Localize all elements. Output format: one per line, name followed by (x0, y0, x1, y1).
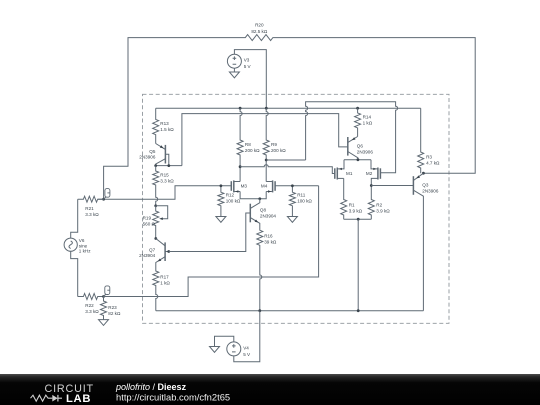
svg-text:R21: R21 (85, 206, 94, 211)
wire V3 plus to +rail (234, 50, 266, 109)
transistor Q6 2N3906 (347, 137, 349, 156)
resistor R2 (368, 186, 374, 220)
ground for R11 (287, 217, 297, 223)
svg-text:R14: R14 (363, 115, 372, 120)
resistor R12 (218, 186, 224, 217)
junction R3 / Q3 emitter / feedback (422, 172, 425, 175)
svg-text:R17: R17 (160, 274, 169, 279)
dashed sub-circuit boundary box (143, 94, 450, 323)
svg-text:560 Ω: 560 Ω (143, 222, 156, 227)
svg-text:pollofrito / Dieesz: pollofrito / Dieesz (115, 382, 187, 392)
svg-text:R15: R15 (160, 172, 169, 177)
wire bias line to Q6 base (182, 114, 348, 166)
wire V6 top lead (71, 199, 78, 238)
ground for R23 (99, 320, 109, 326)
junction +5V rail / V3 / R9 (265, 107, 268, 110)
svg-text:39 kΩ: 39 kΩ (264, 239, 277, 244)
svg-text:3.3 kΩ: 3.3 kΩ (85, 212, 99, 217)
wire node B to M4 gate feedback (104, 186, 319, 297)
svg-text:R19: R19 (143, 216, 152, 221)
wire node A to M3 gate riser (98, 186, 232, 199)
mosfet M4 (274, 181, 276, 191)
svg-text:V3: V3 (244, 58, 250, 63)
svg-text:2N3906: 2N3906 (139, 155, 156, 160)
svg-text:R23: R23 (108, 305, 117, 310)
probe flag node A (104, 197, 107, 200)
svg-text:100 kΩ: 100 kΩ (226, 199, 241, 204)
junction Q7 base (167, 250, 170, 253)
svg-text:R9: R9 (271, 142, 277, 147)
svg-text:R2: R2 (376, 203, 382, 208)
wire M4 drain to top link (266, 159, 305, 161)
junction M2 drain / Q3 base (370, 184, 373, 187)
svg-text:1.5 kΩ: 1.5 kΩ (160, 127, 174, 132)
svg-text:R20: R20 (255, 23, 264, 28)
voltage source V4 5V (227, 342, 241, 356)
svg-text:R13: R13 (160, 121, 169, 126)
wire tail to -5V rail (357, 219, 359, 311)
svg-text:200 kΩ: 200 kΩ (271, 148, 286, 153)
wire top link to M2 gate (306, 102, 398, 173)
svg-text:M1: M1 (346, 171, 353, 176)
junction R1 R2 tail (357, 218, 360, 221)
transistor Q8 2N3904 (249, 204, 251, 223)
resistor R11 (289, 186, 295, 217)
svg-text:R8: R8 (245, 142, 251, 147)
svg-text:R1: R1 (349, 203, 355, 208)
svg-text:Q3: Q3 (422, 183, 429, 188)
svg-text:Q6: Q6 (357, 143, 364, 148)
junction Q5 collector / R15 (154, 164, 157, 167)
resistor R14 (355, 108, 361, 136)
svg-text:4.7 kΩ: 4.7 kΩ (426, 161, 440, 166)
resistor R20 (241, 35, 279, 41)
svg-text:2N3906: 2N3906 (422, 189, 439, 194)
junction R11 top (291, 184, 294, 187)
junction node A (102, 198, 105, 201)
junction +5V rail / R14 (356, 107, 359, 110)
junction R8 / M1 gate tap (239, 165, 242, 168)
ground for V4 (210, 347, 220, 353)
wire V4 plus to ground (215, 336, 234, 346)
resistor R15 (153, 166, 159, 206)
resistor R22 (78, 294, 104, 300)
mosfet M1 (334, 168, 336, 179)
svg-text:R3: R3 (426, 155, 432, 160)
svg-text:Q7: Q7 (149, 247, 156, 252)
voltage source V3 5V (227, 54, 241, 68)
probe flag node B (104, 294, 107, 297)
wire R20 left lead to node A (104, 38, 241, 200)
wire V6 bottom lead (71, 251, 78, 296)
svg-text:2N3904: 2N3904 (139, 253, 156, 258)
junction Q6 collector / source rail (357, 158, 360, 161)
junction node B (102, 295, 105, 298)
resistor R1 (341, 178, 347, 219)
wire M1 M2 common source rail (344, 159, 371, 161)
svg-text:R22: R22 (85, 303, 94, 308)
svg-text:1 kΩ: 1 kΩ (363, 121, 373, 126)
svg-text:R16: R16 (264, 233, 273, 238)
svg-text:2N3904: 2N3904 (260, 214, 277, 219)
wire R1 R2 common bottom (344, 218, 372, 220)
junction +5V rail / R8 (239, 107, 242, 110)
resistor R9 (263, 108, 269, 181)
svg-text:R12: R12 (226, 193, 235, 198)
junction R9 / M4 drain tap (265, 159, 268, 162)
junction -5V rail / R1R2 tail (357, 309, 360, 312)
svg-text:5 V: 5 V (244, 64, 252, 69)
wire M3 drain to M1 gate (240, 165, 335, 174)
svg-text:M2: M2 (366, 171, 373, 176)
svg-text:3.9 kΩ: 3.9 kΩ (349, 209, 363, 214)
svg-text:100 kΩ: 100 kΩ (297, 199, 312, 204)
svg-text:http://circuitlab.com/cfn2t65: http://circuitlab.com/cfn2t65 (116, 391, 230, 402)
wire M4 gate lead (275, 185, 319, 187)
wire V3 minus to ground (233, 68, 235, 72)
mosfet M2 (379, 168, 381, 179)
svg-text:2N3906: 2N3906 (357, 149, 374, 154)
junction R15 / R19 wiper (154, 204, 157, 207)
svg-text:82.5 kΩ: 82.5 kΩ (251, 29, 268, 34)
transistor Q3 2N3906 (412, 176, 414, 195)
svg-text:1 kHz: 1 kHz (79, 249, 91, 254)
svg-text:LAB: LAB (66, 393, 91, 405)
wire Q5 collector-base node (156, 165, 182, 167)
transistor Q5 2N3906 (164, 145, 166, 164)
wire Q7 base to Q8 base (169, 213, 251, 252)
junction Q5 base (167, 164, 170, 167)
wire -5V rail (156, 310, 424, 312)
svg-text:1 kΩ: 1 kΩ (160, 280, 170, 285)
footer bar (0, 374, 540, 405)
wire R20 right lead to Q3 emitter node (278, 38, 475, 174)
junction -5V rail / R16 (258, 309, 261, 312)
svg-text:Q5: Q5 (149, 149, 156, 154)
svg-text:3.3 kΩ: 3.3 kΩ (85, 309, 99, 314)
resistor R23 (101, 297, 107, 320)
mosfet M3 (230, 181, 232, 191)
ground for R12 (216, 217, 226, 223)
wire M3 M4 common source (240, 192, 266, 199)
svg-text:3.3 kΩ: 3.3 kΩ (160, 178, 174, 183)
wire +5V rail (156, 107, 421, 109)
svg-text:3.9 kΩ: 3.9 kΩ (376, 209, 390, 214)
svg-text:V4: V4 (243, 345, 249, 350)
junction R19 / Q7 collector (154, 237, 157, 240)
resistor R17 (153, 270, 159, 311)
resistor R13 (153, 108, 159, 143)
svg-text:M3: M3 (241, 184, 248, 189)
svg-text:R11: R11 (297, 193, 306, 198)
transistor Q7 2N3904 (164, 242, 166, 261)
junction tail node (258, 197, 261, 200)
svg-text:M4: M4 (261, 184, 268, 189)
svg-text:82 kΩ: 82 kΩ (108, 311, 121, 316)
svg-text:200 kΩ: 200 kΩ (245, 148, 260, 153)
junction R12 top (220, 184, 223, 187)
resistor R3 (418, 108, 424, 173)
svg-text:Q8: Q8 (260, 208, 267, 213)
wire -5V rail to V4 minus (234, 311, 260, 362)
wire Q3 base to M2 drain (371, 185, 413, 187)
CircuitLab logo resistor-diode symbol (31, 395, 53, 401)
voltage source V6 sine 1kHz (64, 238, 77, 251)
resistor R16 (257, 225, 263, 311)
ground for V3 (229, 72, 239, 78)
svg-text:5 V: 5 V (243, 352, 251, 357)
resistor R8 (237, 108, 243, 181)
resistor R21 (78, 196, 104, 202)
potentiometer R19 560Ω (153, 206, 159, 239)
